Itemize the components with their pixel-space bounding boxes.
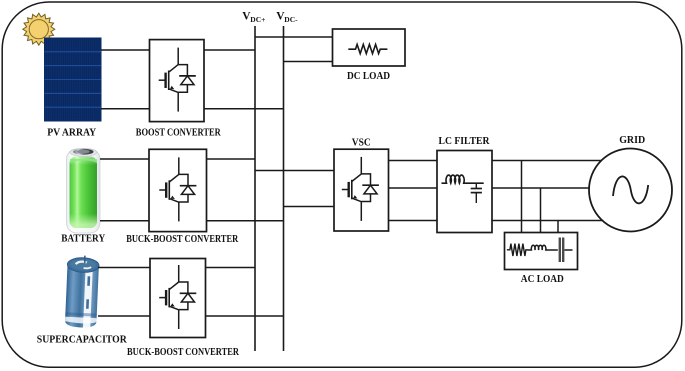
- svg-text:PV ARRAY: PV ARRAY: [47, 127, 96, 139]
- svg-text:LC FILTER: LC FILTER: [439, 135, 491, 147]
- wire LC filter to grid phase c: [492, 220, 603, 222]
- svg-text:DC+: DC+: [250, 15, 265, 24]
- wire LC filter to grid phase a: [492, 160, 601, 162]
- battery: [67, 148, 101, 233]
- IGBT in buck-boost converter 1: [159, 157, 196, 221]
- supercapacitor: [65, 255, 100, 328]
- wire boost to VDC-: [204, 108, 284, 110]
- VDC- bus line: [283, 26, 285, 351]
- DC load box: [333, 29, 406, 66]
- svg-text:BUCK-BOOST CONVERTER: BUCK-BOOST CONVERTER: [126, 233, 239, 245]
- wire supercap- to buck-boost 2: [98, 315, 150, 317]
- wire VDC+ to DC load: [255, 36, 333, 38]
- PV array panel: [45, 38, 102, 121]
- wire PV- to boost: [101, 108, 150, 110]
- wire bb2 to VDC-: [206, 315, 284, 317]
- wire bb2 to VDC+: [206, 267, 256, 269]
- wire VDC- to DC load: [284, 61, 333, 63]
- inductor in LC filter: [442, 175, 484, 183]
- svg-text:BUCK-BOOST CONVERTER: BUCK-BOOST CONVERTER: [127, 346, 240, 358]
- wire VDC- to VSC: [284, 206, 335, 208]
- inductor in AC load: [527, 245, 557, 250]
- wire bb1 to VDC+: [207, 158, 256, 160]
- wire battery+ to buck-boost 1: [100, 158, 149, 160]
- wire VSC to LC filter phase b: [389, 187, 438, 189]
- AC load box: [505, 233, 578, 270]
- wire bb1 to VDC-: [207, 220, 284, 222]
- VSC box: [334, 149, 389, 231]
- IGBT in VSC: [342, 157, 379, 221]
- wire boost to VDC+: [204, 49, 255, 51]
- buck-boost converter 2 box: [150, 259, 206, 338]
- svg-text:VSC: VSC: [352, 136, 371, 148]
- wire VSC to LC filter phase c: [389, 220, 438, 222]
- svg-text:GRID: GRID: [619, 134, 645, 146]
- capacitor in LC filter: [471, 183, 482, 203]
- buck-boost converter 1 box: [149, 149, 207, 231]
- wire VDC+ to VSC: [255, 170, 334, 172]
- resistor in DC load: [348, 44, 387, 53]
- LC filter box: [437, 151, 492, 233]
- wire PV+ to boost: [101, 49, 150, 51]
- boost converter box: [150, 40, 205, 122]
- svg-text:DC-: DC-: [284, 15, 298, 24]
- svg-text:SUPERCAPACITOR: SUPERCAPACITOR: [37, 333, 128, 345]
- svg-text:AC LOAD: AC LOAD: [521, 273, 564, 285]
- capacitor in AC load: [560, 238, 573, 263]
- wire supercap+ to buck-boost 2: [98, 267, 150, 269]
- tap wire c to AC load: [557, 221, 559, 233]
- wire LC filter to grid phase b: [492, 187, 589, 189]
- svg-text:BATTERY: BATTERY: [61, 233, 105, 245]
- svg-text:BOOST CONVERTER: BOOST CONVERTER: [136, 127, 222, 139]
- grid circle: [589, 149, 672, 232]
- resistor in AC load: [507, 244, 528, 256]
- IGBT in buck-boost converter 2: [159, 265, 196, 329]
- sine wave in grid: [613, 176, 648, 203]
- wire VSC to LC filter phase a: [389, 160, 438, 162]
- wire battery- to buck-boost 1: [100, 220, 149, 222]
- sun: [23, 13, 55, 45]
- svg-text:DC LOAD: DC LOAD: [347, 70, 390, 82]
- tap wire b to AC load: [540, 188, 542, 233]
- tap wire a to AC load: [521, 161, 523, 233]
- IGBT in boost converter: [159, 48, 196, 112]
- VDC+ bus line: [254, 26, 256, 351]
